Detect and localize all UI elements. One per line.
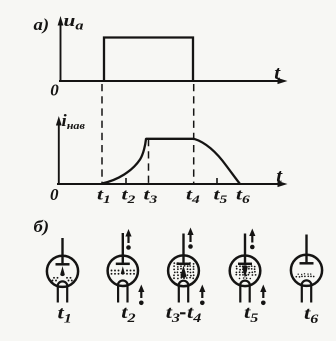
- anode lead wire: [182, 234, 184, 263]
- cathode dome: [179, 281, 189, 286]
- label 0 (top plot origin): [50, 81, 59, 100]
- label t5 (tube): [244, 303, 258, 326]
- anode lead wire: [244, 234, 246, 263]
- cathode dome: [302, 280, 312, 285]
- tube envelope: [108, 256, 138, 286]
- label t2 (axis): [122, 186, 136, 205]
- tick t5: [216, 178, 218, 184]
- label t3 (axis): [144, 186, 158, 205]
- cathode legs: [57, 286, 59, 303]
- tick t2: [125, 178, 127, 184]
- cathode legs: [178, 285, 180, 302]
- current arrow below tube t3-t4: [199, 285, 205, 306]
- anode lead wire: [305, 235, 307, 263]
- current arrow below tube t5: [260, 285, 266, 306]
- svg-text:а): а): [34, 15, 50, 35]
- cathode dome: [118, 281, 128, 286]
- tube envelope: [291, 255, 322, 286]
- label t5 (axis): [214, 186, 228, 205]
- label t4 (axis): [186, 186, 200, 205]
- tube envelope: [230, 255, 261, 286]
- tube envelope: [47, 256, 78, 287]
- current arrow above tube t3-t4: [187, 228, 193, 249]
- cathode legs: [117, 285, 119, 303]
- label t (bottom axis): [276, 166, 283, 187]
- cathode dome: [240, 281, 250, 286]
- anode plate: [238, 263, 252, 266]
- svg-text:0: 0: [50, 81, 59, 100]
- decaying plasma cloud (t5): [235, 265, 256, 279]
- dashed line at t1: [101, 84, 103, 183]
- current arrow above tube t2: [125, 229, 131, 250]
- label u_a: [64, 12, 84, 33]
- label t2 (tube): [121, 303, 135, 326]
- dash between t3 and t4: [180, 312, 186, 314]
- t axis (bottom): [57, 181, 288, 187]
- current arrow above tube t5: [249, 229, 255, 250]
- anode lead wire: [61, 238, 63, 263]
- cathode legs: [239, 285, 241, 302]
- anode plate: [56, 263, 70, 266]
- label 0 (bottom plot origin): [50, 185, 59, 204]
- t axis (top): [59, 78, 288, 84]
- label a): [34, 15, 50, 35]
- electron cloud growing (t2): [111, 266, 135, 275]
- u_a axis vertical: [58, 16, 64, 82]
- anode plate: [300, 262, 314, 265]
- label t (top axis): [274, 63, 281, 84]
- electron stream starting (t1): [52, 266, 73, 281]
- dashed line at t4: [193, 84, 195, 183]
- anode lead wire: [122, 233, 124, 263]
- label t6 (axis): [236, 186, 250, 205]
- anode plate: [177, 263, 191, 266]
- residual ions near cathode (t6): [295, 273, 314, 278]
- plasma cloud filling tube (t3-t4): [173, 262, 195, 279]
- label t1 (axis): [97, 186, 111, 205]
- svg-text:б): б): [34, 217, 50, 237]
- label t1 (tube): [58, 303, 72, 326]
- current arrow below tube t2: [138, 285, 144, 306]
- label t6 (tube): [304, 304, 319, 327]
- cathode dome: [58, 281, 68, 286]
- induced current curve i_nav: [102, 139, 240, 184]
- label t4 (tube): [187, 303, 201, 326]
- label i_nav: [62, 111, 85, 132]
- label t3 (tube): [166, 303, 180, 326]
- label b): [34, 217, 50, 237]
- cathode legs: [301, 285, 303, 303]
- svg-text:0: 0: [50, 185, 59, 204]
- dashed line at t3: [148, 139, 150, 183]
- anode voltage pulse u_a: [104, 38, 193, 82]
- tube envelope: [168, 255, 199, 286]
- anode plate: [116, 263, 130, 266]
- i_nav axis vertical: [56, 116, 62, 185]
